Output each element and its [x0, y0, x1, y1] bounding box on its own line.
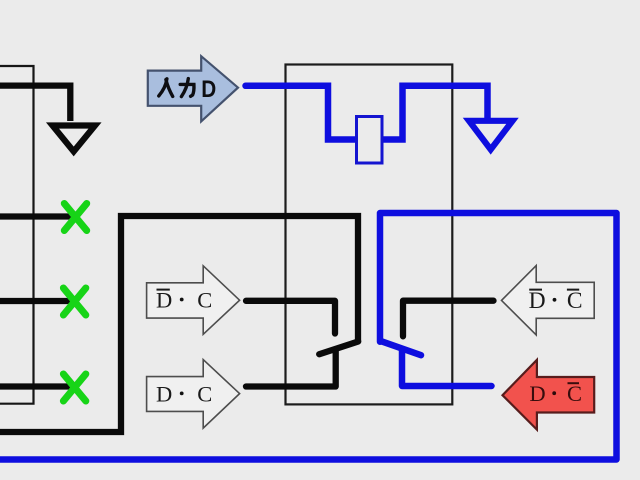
svg-text:D: D — [156, 288, 172, 313]
svg-text:C: C — [197, 288, 212, 313]
svg-text:C: C — [197, 382, 212, 407]
svg-text:D: D — [529, 288, 546, 314]
svg-text:C: C — [567, 381, 582, 406]
svg-text:D: D — [201, 76, 216, 103]
svg-text:D: D — [529, 381, 545, 406]
svg-text:D: D — [156, 382, 172, 407]
svg-text:C: C — [567, 288, 583, 314]
